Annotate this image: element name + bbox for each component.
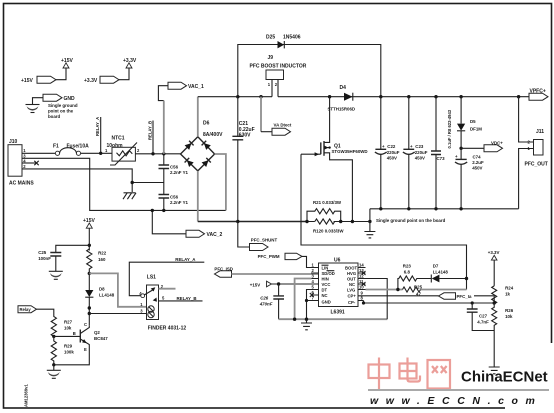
svg-text:D6: D6: [203, 121, 210, 127]
D6 diode lower-left: [187, 160, 194, 167]
connector J10 AC MAINS: [8, 139, 34, 187]
svg-text:LVG: LVG: [347, 288, 355, 293]
fuse F1 Fuse/10A: [53, 143, 89, 155]
svg-text:BOOT: BOOT: [345, 266, 358, 271]
svg-text:LL4148: LL4148: [433, 270, 449, 275]
tag PFC_SHUNT: [236, 220, 277, 251]
svg-text:E: E: [84, 347, 87, 352]
resistor R27 10k: [51, 312, 72, 336]
power arrow +15V (VCC): [250, 281, 311, 287]
inductor connector J9 PFC BOOST INDUCTOR: [250, 55, 307, 97]
svg-text:630V: 630V: [239, 133, 251, 139]
svg-text:8A/400V: 8A/400V: [203, 132, 223, 138]
ground rail (bulk caps return): [370, 208, 519, 210]
ground symbol (U6 signal ground): [301, 319, 312, 330]
note: single ground point text: [48, 103, 78, 119]
svg-text:100k: 100k: [64, 350, 74, 355]
svg-text:+3.3V: +3.3V: [84, 78, 98, 84]
svg-text:PFC_Ia: PFC_Ia: [457, 294, 472, 299]
transistor Q1 STGW35HF60WD: [301, 95, 368, 222]
wire LVG with resistor R25 47: [366, 285, 467, 297]
svg-text:450V: 450V: [472, 166, 482, 171]
svg-text:LS1: LS1: [147, 275, 156, 281]
D6 diode lower-right: [202, 160, 209, 167]
svg-text:220uF: 220uF: [415, 150, 428, 155]
svg-text:LIN: LIN: [322, 266, 329, 271]
svg-text:PFC_SHUNT: PFC_SHUNT: [251, 238, 278, 243]
chassis ground (hatched): [123, 193, 136, 199]
wire bridge top to bus (gray): [197, 97, 199, 137]
svg-text:Q2: Q2: [94, 330, 100, 335]
power tag +3.3V (top-left): [84, 58, 137, 84]
tag PFC_Ia: [439, 293, 495, 303]
svg-text:C73: C73: [437, 156, 446, 161]
svg-text:10: 10: [359, 284, 364, 289]
svg-text:+15V: +15V: [250, 283, 260, 288]
svg-text:PFC_OUT: PFC_OUT: [525, 162, 548, 168]
svg-text:+: +: [455, 154, 458, 159]
no-connect pin11: [362, 282, 366, 286]
svg-text:J10: J10: [9, 139, 18, 145]
svg-text:Single ground: Single ground: [48, 103, 78, 108]
svg-text:VAC_2: VAC_2: [207, 232, 223, 238]
svg-text:D5: D5: [470, 119, 476, 124]
gate drive loop wire: [301, 154, 467, 289]
wire GND pin down: [307, 301, 312, 320]
svg-text:LL4148: LL4148: [99, 293, 115, 298]
svg-text:www.ECCN.com: www.ECCN.com: [370, 395, 543, 407]
svg-text:J9: J9: [268, 55, 274, 61]
resistor R120 0.033/3W (on main line): [305, 219, 354, 234]
svg-text:DT: DT: [322, 288, 328, 293]
svg-text:2.2uF: 2.2uF: [472, 160, 484, 165]
wire J10 pin2 earth: [22, 169, 132, 192]
svg-text:F1: F1: [53, 143, 59, 149]
capacitor C22 220uF 450V (bulk): [375, 95, 400, 209]
svg-text:D4: D4: [340, 85, 347, 91]
svg-text:C56: C56: [170, 195, 179, 200]
wire NTC1 pin2 to bridge: [135, 153, 180, 155]
svg-text:STTH15R06D: STTH15R06D: [328, 107, 356, 112]
ground symbol (earth, top-left): [26, 105, 40, 113]
left pin stubs: [311, 268, 319, 301]
watermark white patch: [505, 343, 554, 409]
wire relay coil pin3 to Q2 collector: [89, 313, 146, 315]
tag PFC_ISD: [214, 266, 318, 277]
svg-text:AC MAINS: AC MAINS: [9, 181, 34, 187]
svg-text:C74: C74: [473, 155, 482, 160]
wire bridge bottom to shunt line (gray): [197, 171, 199, 222]
capacitor C56 (upper Y-cap) 2.2nF Y1: [159, 152, 189, 182]
svg-text:NTC1: NTC1: [112, 136, 125, 142]
svg-text:100nF: 100nF: [38, 256, 51, 261]
power tag +15V (top-left): [21, 58, 73, 84]
svg-text:+15V: +15V: [21, 78, 33, 84]
ground symbol (under R26): [489, 367, 500, 374]
svg-text:AM12369v1: AM12369v1: [24, 384, 29, 407]
diode D25 1N5406 (inrush bypass): [238, 35, 381, 97]
svg-text:C: C: [84, 322, 87, 327]
wire +15V to relay coil pin1 (gray): [89, 273, 146, 306]
svg-text:14: 14: [359, 262, 364, 267]
no-connect J10 pin4: [22, 161, 39, 165]
no-connect pin13: [362, 271, 366, 275]
connector J11 PFC_OUT: [517, 95, 548, 209]
wire HIN to signal ground: [295, 279, 312, 320]
svg-text:C26: C26: [260, 296, 269, 301]
svg-text:R25: R25: [414, 285, 423, 290]
capacitor C21 0.22uF 630V: [232, 95, 254, 222]
relay LS1 FINDER 4031-12: [139, 275, 202, 332]
svg-text:R24: R24: [505, 286, 514, 291]
svg-text:450V: 450V: [415, 156, 425, 161]
tag VA detect: [259, 95, 292, 135]
svg-text:+: +: [382, 144, 385, 149]
svg-text:10k: 10k: [505, 314, 513, 319]
svg-text:STGW35HF60WD: STGW35HF60WD: [332, 149, 368, 154]
svg-text:RELAY_A: RELAY_A: [95, 117, 100, 136]
svg-text:RELAY_B: RELAY_B: [177, 296, 197, 301]
thermistor NTC1 10ohm: [105, 136, 140, 166]
diode D5 DF1M: [457, 95, 482, 148]
resistor R23 6.8 (gate turn-off): [398, 264, 431, 290]
tag VDC+: [459, 141, 503, 152]
svg-text:11: 11: [359, 279, 364, 284]
wire CP+ to sense node: [366, 295, 439, 297]
diode D8 LL4148 (coil flyback): [85, 272, 114, 326]
svg-text:SD/OD: SD/OD: [322, 271, 335, 276]
svg-text:C56: C56: [170, 165, 179, 170]
capacitor C74 2.2uF 450V: [455, 148, 484, 209]
svg-text:1N5406: 1N5406: [283, 35, 301, 41]
ground symbol (PFC ground): [364, 220, 375, 238]
svg-text:D25: D25: [266, 35, 275, 41]
svg-text:+15V: +15V: [61, 58, 73, 64]
D6 diode upper-left: [185, 143, 192, 150]
svg-text:HIN: HIN: [322, 277, 329, 282]
svg-text:NC: NC: [349, 282, 355, 287]
svg-text:+: +: [410, 144, 413, 149]
svg-text:BC847: BC847: [94, 336, 108, 341]
svg-text:1k: 1k: [505, 292, 510, 297]
svg-text:GND: GND: [322, 300, 331, 305]
diode D7 LL4148: [431, 264, 468, 283]
svg-text:FINDER 4031-12: FINDER 4031-12: [148, 326, 187, 332]
capacitor C26 470nF: [259, 282, 284, 319]
svg-text:VA Dtect: VA Dtect: [274, 123, 292, 128]
wire OUT return loop: [366, 279, 388, 320]
tag VAC_1: [158, 82, 204, 100]
svg-text:OUT: OUT: [347, 277, 356, 282]
svg-text:C25: C25: [38, 250, 47, 255]
svg-text:R29: R29: [64, 344, 73, 349]
wire bridge right to neutral line (gray): [215, 154, 226, 210]
D6 diode upper-right: [204, 143, 211, 150]
svg-text:point on the: point on the: [48, 109, 74, 114]
svg-text:0.1uF / R8 622-4943: 0.1uF / R8 622-4943: [447, 109, 452, 148]
svg-text:450V: 450V: [387, 156, 397, 161]
svg-text:R27: R27: [64, 320, 73, 325]
ground symbol (under C25): [49, 271, 63, 279]
GND tag with single ground point note: [33, 94, 76, 104]
svg-text:2.2nF Y1: 2.2nF Y1: [170, 170, 189, 175]
svg-text:R26: R26: [505, 308, 514, 313]
svg-text:D7: D7: [433, 264, 439, 269]
diode D4 STTH15R06D: [328, 85, 356, 112]
wire Y-cap midpoint: [132, 182, 164, 184]
power arrow +3.3V (divider): [488, 250, 500, 286]
svg-text:Single ground point on the boa: Single ground point on the board: [376, 218, 446, 223]
wire J10 pin1 to fuse: [22, 152, 55, 154]
svg-text:12: 12: [359, 273, 364, 278]
tag PFC_PWM: [258, 253, 311, 267]
signal ground collection wire: [279, 318, 388, 320]
svg-text:GND: GND: [64, 96, 76, 102]
svg-text:R23: R23: [403, 264, 412, 269]
svg-text:CP+: CP+: [348, 294, 357, 299]
watermark divider line: [368, 389, 549, 391]
svg-text:ChinaECNet: ChinaECNet: [461, 369, 548, 386]
capacitor C56 (lower Y-cap) 2.2nF Y1: [159, 183, 189, 213]
resistor R26 10k: [492, 301, 514, 367]
svg-text:J11: J11: [536, 129, 544, 135]
svg-text:NC: NC: [322, 293, 328, 298]
capacitor C23 220uF 450V (bulk): [403, 95, 428, 209]
resistor R22 160: [87, 249, 107, 273]
main bus wire (bridge+ to inductor): [198, 96, 272, 98]
node RELAY_A stub near NTC: [95, 117, 102, 155]
wire VAC_1 drop to AC line (gray): [163, 101, 165, 154]
wire J10 pin3 neutral run: [22, 158, 226, 210]
svg-text:+3.3V: +3.3V: [488, 250, 500, 255]
svg-text:PFC BOOST INDUCTOR: PFC BOOST INDUCTOR: [250, 64, 307, 70]
svg-text:DF1M: DF1M: [470, 127, 482, 132]
svg-text:CP-: CP-: [348, 300, 356, 305]
svg-text:Relay: Relay: [20, 307, 32, 312]
svg-text:470nF: 470nF: [259, 302, 273, 307]
svg-text:R21 0.033/3W: R21 0.033/3W: [313, 200, 342, 205]
svg-text:220uF: 220uF: [387, 150, 400, 155]
svg-text:R22: R22: [98, 251, 107, 256]
svg-text:2.2nF Y1: 2.2nF Y1: [170, 200, 189, 205]
svg-text:C22: C22: [387, 144, 396, 149]
capacitor C73 0.1uF: [431, 95, 452, 209]
transistor Q2 BC847: [54, 322, 108, 365]
svg-text:160: 160: [98, 257, 106, 262]
wire DT to GND pin: [307, 290, 312, 301]
svg-text:6.8: 6.8: [404, 270, 411, 275]
svg-text:RELAY_A: RELAY_A: [175, 257, 196, 262]
tag VAC_2: [151, 209, 223, 238]
watermark CJK characters: [369, 358, 451, 390]
tag Relay: [18, 306, 54, 313]
svg-text:RELAY_B: RELAY_B: [148, 121, 153, 140]
svg-text:R120 0.033/3W: R120 0.033/3W: [313, 229, 344, 234]
power arrow +15V (relay branch): [83, 218, 95, 251]
resistor R21 0.033/3W (top of parallel pair): [307, 200, 342, 222]
svg-text:VCC: VCC: [322, 282, 331, 287]
capacitor C27 4.7nF: [467, 301, 494, 330]
svg-text:L6391: L6391: [331, 310, 345, 316]
resistor R24 1k: [492, 286, 514, 304]
node RELAY_B stub: [148, 121, 155, 156]
main bus wire (inductor out to VPFC+): [278, 96, 529, 98]
bridge rectifier D6 8A/400V: [181, 121, 224, 171]
net wire RELAY_A: [129, 257, 204, 296]
svg-text:D8: D8: [99, 287, 105, 292]
svg-text:+3.3V: +3.3V: [123, 58, 137, 64]
no-connect pin6: [310, 293, 314, 297]
capacitor C25 100nF: [38, 244, 91, 272]
ground symbol (under R29): [47, 363, 61, 378]
svg-text:HVG: HVG: [347, 271, 356, 276]
wire fuse to NTC1: [81, 152, 112, 154]
IC U6 L6391: [311, 258, 366, 316]
svg-text:10k: 10k: [64, 326, 72, 331]
relay coil: [148, 306, 154, 312]
wire CP- to divider: [364, 301, 495, 304]
svg-text:VAC_1: VAC_1: [188, 84, 204, 90]
tag VPFC+: [529, 89, 548, 101]
resistor R29 100k: [51, 335, 74, 365]
svg-text:13: 13: [359, 268, 364, 273]
svg-text:4.7nF: 4.7nF: [477, 320, 489, 325]
svg-text:PFC_PWM: PFC_PWM: [258, 254, 280, 259]
shunt line (bridge- to PFC gnd): [198, 221, 307, 223]
svg-text:board: board: [48, 114, 61, 119]
svg-text:C23: C23: [415, 144, 424, 149]
svg-text:B: B: [73, 331, 76, 336]
svg-text:VDC+: VDC+: [491, 141, 503, 146]
svg-text:Fuse/10A: Fuse/10A: [67, 143, 90, 149]
right pin stubs: [358, 268, 366, 301]
svg-text:C27: C27: [479, 314, 488, 319]
